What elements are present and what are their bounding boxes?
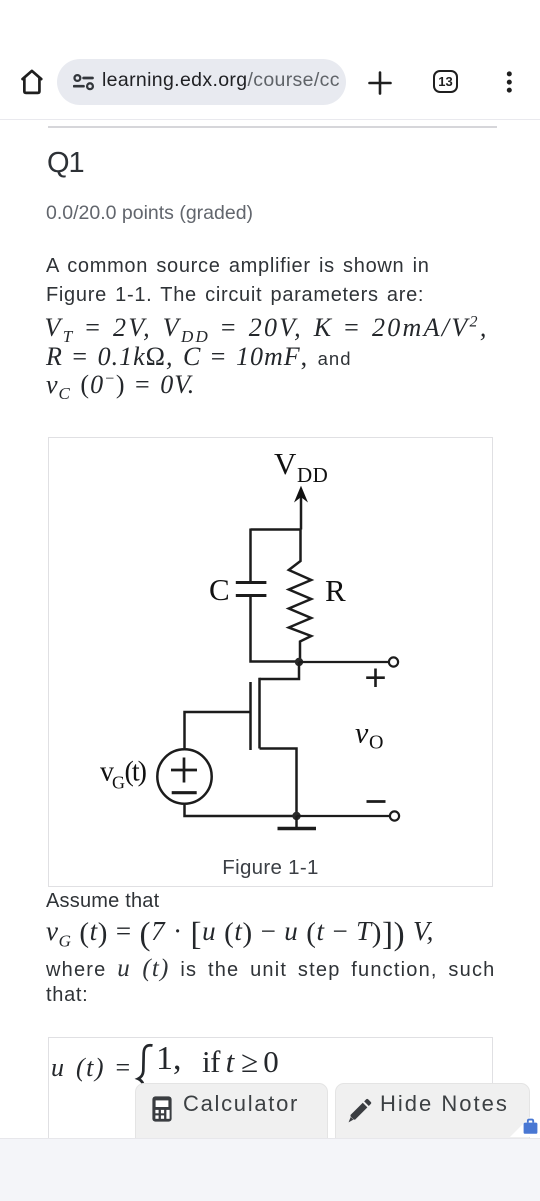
svg-text:(t): (t) (125, 757, 147, 788)
svg-text:V: V (274, 446, 297, 481)
capacitor C plates (236, 583, 267, 596)
wire: gate to source vG (185, 712, 251, 748)
wire: output node to + terminal (299, 661, 389, 663)
URL pill (57, 59, 346, 105)
svg-text:R: R (325, 573, 346, 608)
svg-text:G: G (112, 773, 125, 793)
kebab menu (504, 69, 515, 95)
home icon (18, 67, 46, 95)
footer strip (0, 1138, 540, 1201)
svg-text:C: C (209, 572, 230, 607)
label + polarity (366, 669, 385, 688)
circuit schematic (48, 437, 493, 887)
diagonal cut on Hide Notes corner (510, 1116, 531, 1137)
tab counter (433, 70, 458, 93)
svg-text:O: O (369, 732, 383, 754)
label - polarity (367, 800, 386, 803)
node: drain / output node (junction dot) (295, 658, 303, 666)
math line 2 (46, 342, 352, 372)
wire: source bottom to ground rail (185, 805, 297, 816)
node: source/ground node (junction dot) (292, 812, 300, 820)
caption (48, 856, 493, 880)
transistor Q1 gate bar (249, 682, 252, 750)
resistor R (289, 530, 311, 663)
ground (278, 816, 317, 829)
URL text (102, 69, 339, 92)
svg-text:DD: DD (297, 463, 328, 487)
source vG(t) (circle symbol) (157, 749, 211, 803)
label vG(t) (100, 757, 147, 793)
wire: left branch down to capacitor (249, 529, 252, 583)
svg-text:v: v (355, 717, 369, 750)
label vO (355, 717, 383, 754)
wire: ground node to - terminal (297, 815, 391, 817)
label VDD (274, 446, 328, 487)
label + inside source (171, 758, 197, 783)
big math line (46, 916, 434, 956)
plus icon (368, 71, 392, 95)
transistor Q1 source wire (260, 749, 297, 817)
briefcase icon (523, 1118, 538, 1135)
tune icon (73, 72, 95, 91)
math line 3 (46, 370, 195, 404)
transistor Q1 channel bar (258, 678, 261, 749)
wire: below capacitor down and right to output node (251, 596, 300, 662)
terminal: - output (open circle) (390, 811, 399, 820)
transistor Q1 (NMOS) drain wire (260, 662, 300, 679)
terminal: + output (open circle) (389, 657, 398, 666)
wire: top tee from VDD to C and R (251, 528, 302, 531)
content hr (48, 126, 497, 128)
math line 1 (45, 313, 489, 347)
label - inside source (172, 791, 197, 794)
VDD supply arrow (295, 487, 307, 530)
